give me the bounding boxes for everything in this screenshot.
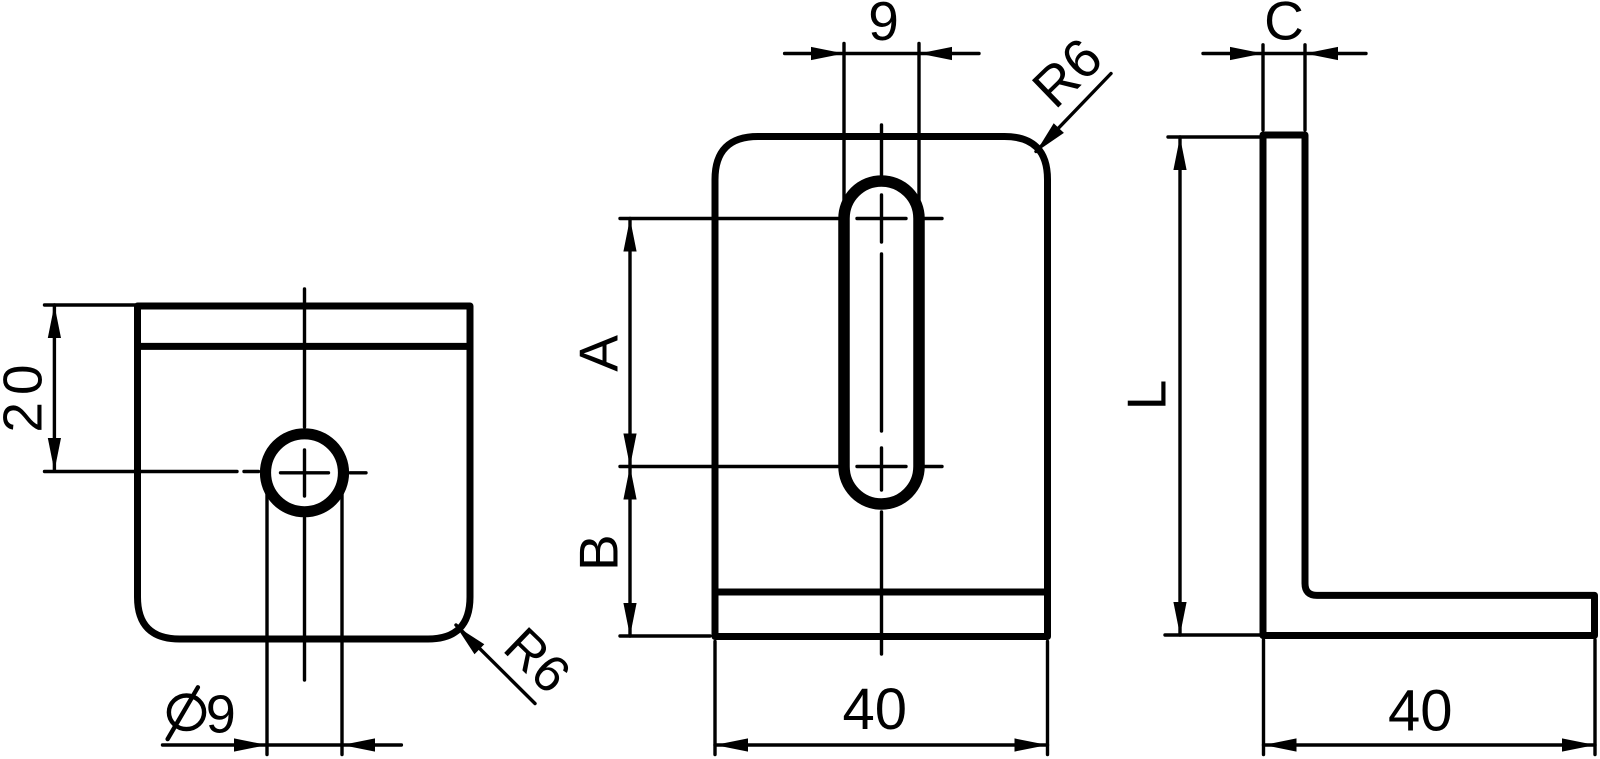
dimA arrow up: [623, 219, 636, 252]
dim9hole line: [163, 743, 402, 746]
dimB arrow down: [623, 603, 636, 636]
dim9hole arrow right: [234, 738, 267, 751]
dimB extension bottom: [620, 634, 710, 637]
svg-text:20: 20: [0, 357, 53, 432]
dim9 extension left: [842, 44, 845, 201]
dimC arrow left: [1305, 47, 1338, 60]
dimL extension bottom: [1165, 633, 1260, 636]
view2 slot bottom crossline: [620, 465, 942, 468]
view2 leader R6 line: [1036, 74, 1111, 152]
dimA arrow down: [623, 434, 636, 467]
view2 plate outline: [715, 137, 1048, 637]
dimB line: [628, 467, 631, 637]
dim20 arrow up: [48, 305, 61, 338]
view1 bend line: [138, 343, 471, 350]
view1 leader R6 line: [456, 625, 535, 704]
dim9 arrow right: [811, 47, 844, 60]
dim40right arrow left: [1264, 738, 1297, 751]
dimL extension top: [1168, 135, 1260, 138]
dim40right line: [1264, 743, 1596, 746]
dimB arrow up: [623, 467, 636, 500]
dim40mid arrow left: [715, 738, 748, 751]
svg-text:40: 40: [1388, 678, 1453, 743]
dimC extension right: [1303, 45, 1306, 130]
view2 vertical centerline: [880, 125, 883, 654]
dim9hole projection right: [340, 474, 343, 755]
svg-text:L: L: [1116, 380, 1178, 411]
view1 horizontal centerline: [45, 472, 367, 473]
dim40right extension left: [1262, 640, 1265, 755]
svg-text:C: C: [1264, 0, 1304, 51]
view2 bend line: [715, 589, 1048, 596]
dim9 extension right: [917, 44, 920, 201]
svg-text:40: 40: [843, 677, 908, 742]
dimC line: [1203, 52, 1366, 55]
view2 R6 arrowhead: [1036, 123, 1064, 152]
dimL line: [1178, 137, 1181, 635]
view2 slot: [844, 181, 919, 504]
view1 R6 arrowhead: [456, 626, 484, 654]
label dia9 symbol: [169, 696, 204, 730]
dim40mid extension right: [1046, 642, 1049, 755]
dim9hole projection left: [265, 474, 268, 755]
dimA line: [628, 219, 631, 467]
dimL arrow down: [1173, 602, 1186, 635]
svg-text:A: A: [568, 335, 630, 372]
view2 slot top crossline: [620, 217, 942, 220]
view3 profile outline: [1263, 135, 1595, 636]
view1 plate outline: [138, 306, 471, 639]
svg-text:B: B: [568, 534, 630, 571]
view1 vertical centerline: [303, 289, 306, 680]
dim20 extension top: [45, 303, 136, 306]
dimL arrow up: [1173, 137, 1186, 170]
dim40right extension right: [1593, 640, 1596, 755]
dim9 line: [785, 52, 979, 55]
dim40mid arrow right: [1015, 738, 1048, 751]
dim40mid extension left: [713, 642, 716, 755]
view1 hole circle: [266, 434, 344, 512]
dim9hole arrow left: [342, 738, 375, 751]
dim40right arrow right: [1562, 738, 1595, 751]
dimC arrow right: [1230, 47, 1263, 60]
svg-text:9: 9: [868, 0, 899, 52]
dim20 arrow down: [48, 438, 61, 471]
svg-text:9: 9: [206, 684, 236, 744]
dim40mid line: [715, 743, 1048, 746]
dim20 line: [53, 305, 56, 471]
dim9 arrow left: [919, 47, 952, 60]
dimC extension left: [1261, 45, 1264, 130]
